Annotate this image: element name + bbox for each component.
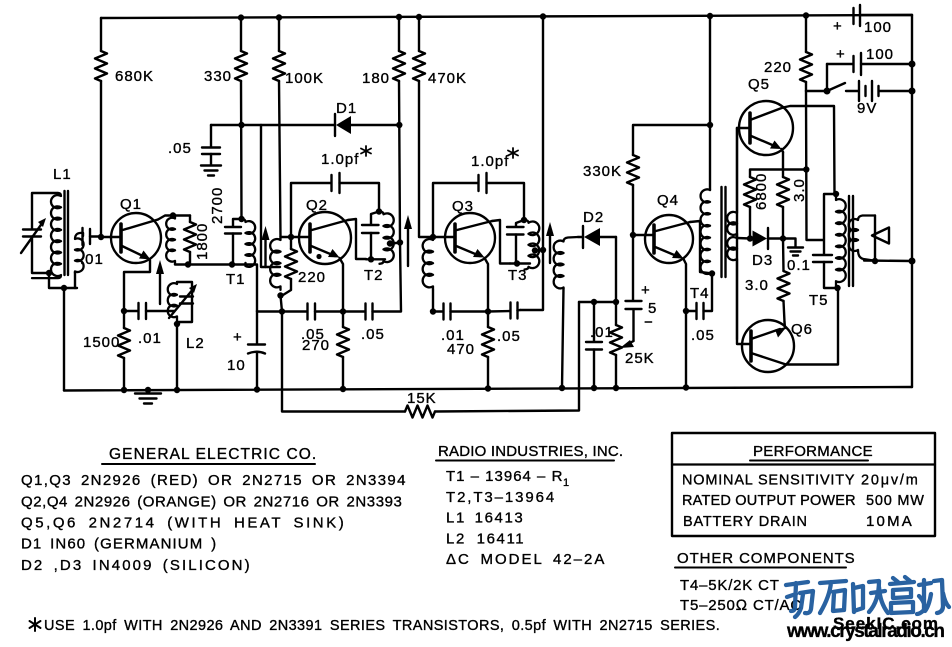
svg-text:D1: D1 (336, 100, 357, 117)
svg-text:GENERAL ELECTRIC CO.: GENERAL ELECTRIC CO. (109, 446, 317, 463)
svg-text:+: + (233, 329, 243, 346)
arrow Q1 slug (156, 260, 164, 304)
wire 100K down to Q2 base coil (279, 81, 281, 237)
wire T3 tap (533, 249, 543, 252)
node rail 25K (613, 385, 619, 391)
wire Q2 collector to T2 bottom (348, 219, 366, 259)
svg-text:470K: 470K (428, 70, 467, 87)
node T3 bottom (514, 260, 520, 266)
core T5 (849, 196, 853, 286)
node Q2 base (288, 234, 294, 240)
svg-text:680K: 680K (115, 68, 154, 85)
wire right supply rail (911, 15, 913, 261)
text block Other Components (675, 550, 856, 614)
transistor Q4 (633, 192, 693, 263)
wire 220 top lead (805, 16, 807, 53)
transistor Q3 (445, 198, 495, 263)
star footnote mark Q3 (508, 148, 518, 158)
node rail Q4 emitter (683, 384, 689, 390)
node right rail 100uF (909, 61, 916, 68)
node top rail junction x241 (238, 14, 244, 20)
wire T2 bottom bus (366, 258, 385, 260)
svg-text:L1: L1 (53, 166, 72, 183)
svg-text:3.0: 3.0 (791, 178, 808, 202)
wire Q6 emitter up to 3.0 (783, 322, 786, 328)
node volume top left (591, 299, 597, 305)
node top rail junction x279 (276, 14, 282, 20)
svg-text:D2: D2 (583, 209, 604, 226)
node 1800 bottom (185, 261, 191, 267)
node 2700 bottom (229, 261, 235, 267)
wire AGC feedback down (282, 312, 405, 412)
svg-text:.01: .01 (138, 330, 162, 347)
resistor 470 (447, 312, 494, 389)
node L1 bottom (46, 270, 52, 276)
label T2 (364, 267, 384, 284)
resistor 6800 (744, 173, 770, 239)
arrow T2 slug (404, 215, 412, 266)
wire supply to T4 primary (709, 16, 711, 190)
capacitor .01 Q1 base (80, 228, 104, 268)
node D1/180 junction (396, 122, 402, 128)
wire Q4 collector to T4 primary bottom (690, 221, 712, 274)
svg-text:6800: 6800 (753, 173, 770, 210)
svg-text:NOMINAL SENSITIVITY: NOMINAL SENSITIVITY (682, 473, 855, 489)
wire coupling coil bottom to row (432, 290, 434, 312)
svg-text:220: 220 (298, 269, 326, 286)
wire 180 top lead (398, 17, 400, 51)
battery 9V (846, 81, 912, 117)
wire 330K to Q4 base (632, 185, 634, 235)
node 330/AGC junction (238, 122, 244, 128)
wire 680K top lead (100, 18, 102, 51)
wire 330K branch (633, 125, 710, 155)
wire tuning cap bottom (32, 237, 49, 274)
wire 180 down through D1 node to T2 tap and .05 (399, 81, 401, 311)
wire Q3 collector to T3 bottom (492, 220, 510, 264)
text footnote (30, 618, 721, 634)
transistor Q1 (101, 196, 161, 263)
svg-text:T5–250Ω CT/AC: T5–250Ω CT/AC (680, 597, 802, 614)
svg-text:OTHER COMPONENTS: OTHER COMPONENTS (677, 550, 856, 567)
inductor L1 secondary (75, 233, 84, 273)
wire L1 bottom bus (49, 272, 77, 288)
node Q4 base (630, 232, 636, 238)
node volume top right (613, 299, 619, 305)
node coil bottom row (430, 308, 436, 314)
transistor Q2 (299, 197, 351, 264)
svg-text:Q4: Q4 (657, 192, 679, 209)
node top rail junction x806 (803, 12, 809, 18)
resistor 1800 (184, 216, 211, 265)
core T4 (722, 187, 726, 277)
wire T2 tap (388, 243, 400, 245)
wire 25K wiper (620, 310, 634, 349)
transistor Q6 (742, 320, 813, 372)
svg-text:D3: D3 (752, 252, 773, 269)
wire L2 to ground rail (176, 324, 178, 390)
inductor T1 coupling coil to Q2 (270, 237, 280, 290)
wire coil bottom to bus node (281, 296, 283, 312)
capacitor 100uF mid (827, 46, 912, 75)
node D3 cathode (780, 235, 786, 241)
node switch (824, 88, 831, 95)
svg-text:+: + (833, 18, 843, 35)
wire supply y169 bus (750, 170, 806, 178)
node top rail junction x399 (396, 14, 402, 20)
svg-text:3.0: 3.0 (745, 277, 769, 294)
svg-text:L2: L2 (186, 335, 205, 352)
capacitor .05 decoupling top-left (168, 125, 220, 165)
node T2 top (376, 208, 382, 214)
inductor T2 winding (379, 212, 394, 264)
watermark crystalradio (786, 577, 949, 642)
inductor detector coil (554, 237, 578, 289)
wire T4 secondary tap (737, 237, 750, 240)
svg-text:10: 10 (227, 357, 246, 374)
node T1 coupling coil bottom bus (279, 308, 285, 314)
svg-text:330K: 330K (583, 163, 622, 180)
svg-text:.05: .05 (168, 140, 192, 157)
svg-text:Q1,Q3 2N2926 (RED) OR 2N2715 O: Q1,Q3 2N2926 (RED) OR 2N2715 OR 2N3394 (21, 472, 407, 489)
svg-text:RATED OUTPUT POWER: RATED OUTPUT POWER (682, 493, 856, 509)
svg-text:.05: .05 (497, 328, 521, 345)
node top rail junction x419 (416, 14, 422, 20)
node rail L2 (174, 387, 180, 393)
resistor 220 output (764, 52, 812, 82)
ground D3 node (783, 239, 803, 256)
speaker (872, 216, 889, 262)
svg-text:470: 470 (447, 341, 475, 358)
node T1 secondary top (238, 216, 244, 222)
wire Q2 emitter down (340, 258, 344, 312)
svg-text:+: + (836, 46, 846, 63)
svg-text:T1 – 13964 – R: T1 – 13964 – R (446, 468, 563, 485)
wire 10uF node bus (257, 310, 282, 312)
resistor 220 Q2 bias (283, 237, 326, 295)
svg-text:T4: T4 (690, 285, 710, 302)
transistor Q5 (737, 76, 793, 155)
capacitor .01 Q3 in (433, 304, 488, 345)
node speaker return left (872, 258, 878, 264)
node T3 top (521, 217, 527, 223)
svg-text:25K: 25K (625, 350, 655, 367)
node T2 tap/180 line junction (397, 239, 403, 245)
resistor 15K (405, 390, 437, 418)
wire 470K down to Q3 base (419, 81, 433, 237)
capacitor T2 tuning (362, 212, 379, 260)
svg-text:100: 100 (866, 46, 894, 63)
node rail 470 (485, 385, 491, 391)
wire Q5 emitter lead (782, 149, 784, 152)
node rail 1500 (121, 387, 127, 393)
node top rail junction x710 (707, 13, 713, 19)
wire 220 to switch node (805, 82, 807, 91)
text block General Electric (21, 446, 407, 574)
inductor T5 primary (836, 194, 846, 288)
svg-text:20μv/m: 20μv/m (861, 473, 920, 489)
node L1 ground drop (61, 285, 67, 291)
capacitor 100uF top (833, 5, 912, 36)
wire switch node (806, 90, 827, 92)
svg-text:1800: 1800 (194, 223, 211, 260)
wire AGC branch down to T1 coupling coil (261, 125, 280, 267)
svg-text:T4–5K/2K CT: T4–5K/2K CT (680, 577, 780, 594)
resistor 330K (583, 155, 639, 185)
svg-text:Q5: Q5 (748, 76, 770, 93)
svg-text:USE 1.0pf WITH 2N2926 AND: USE 1.0pf WITH 2N2926 AND 2N3391 SERIES … (44, 618, 720, 634)
wire 0.1 supply branch (824, 194, 836, 255)
capacitor variable tuning (21, 218, 46, 253)
node supply y169 junction (803, 166, 809, 172)
wire D2 to volume node (615, 237, 617, 302)
wire L1 top (32, 193, 58, 229)
switch arm (827, 83, 845, 91)
node T4 tap (747, 235, 753, 241)
svg-text:T2: T2 (364, 267, 384, 284)
star footnote mark Q2 (361, 146, 371, 156)
L1 label (53, 166, 72, 183)
resistor 270 (302, 312, 349, 390)
capacitor .01 detector (586, 302, 614, 388)
wire supply to T3 tap line (520, 17, 543, 311)
wire T3 bottom bus (510, 262, 530, 264)
wire T4 primary bottom stub (710, 272, 712, 275)
inductor L2 (168, 282, 205, 352)
wire Q4 emitter down to rail (684, 259, 687, 388)
resistor 470K (413, 51, 467, 87)
wire Q1 collector to load (158, 216, 190, 220)
label T1 (226, 271, 246, 288)
node rail 10uF (254, 386, 260, 392)
svg-text:330: 330 (204, 68, 232, 85)
svg-text:Q5,Q6 2N2714 (WITH HEAT SINK): Q5,Q6 2N2714 (WITH HEAT SINK) (21, 515, 346, 532)
svg-text:1.0pf: 1.0pf (321, 151, 359, 168)
svg-text:Q2: Q2 (306, 197, 328, 214)
arrow T3 slug (546, 222, 554, 263)
inductor T2 coupling coil to Q3 (423, 237, 433, 290)
node Q3 base (430, 234, 436, 240)
capacitor .05 Q2 out (343, 304, 401, 344)
node T5 primary top (833, 191, 839, 197)
svg-text:100: 100 (864, 19, 892, 36)
node Q1 base (98, 234, 104, 240)
svg-text:L1 16413: L1 16413 (446, 510, 524, 527)
svg-text:Q3: Q3 (452, 198, 474, 215)
node T4 primary bottom (709, 270, 715, 276)
wire Q3 base lead (433, 236, 455, 238)
svg-text:T3: T3 (508, 267, 528, 284)
svg-text:100K: 100K (285, 70, 324, 87)
wire detector coil bottom to rail (562, 288, 564, 388)
svg-text:1: 1 (563, 477, 569, 489)
diode D3 (752, 228, 783, 269)
capacitor .05 reflex left (282, 304, 343, 344)
wire 330 top lead (240, 18, 242, 51)
resistor 3.0 Q5 emitter (777, 152, 808, 239)
node coupling coil bottom (277, 292, 283, 298)
label T5 (809, 292, 829, 309)
node Q2 emitter row (340, 308, 346, 314)
capacitor 0.1 (787, 255, 838, 288)
wire 330 down to T1 top (240, 81, 243, 219)
svg-text:0.1: 0.1 (787, 257, 811, 274)
wire 15K to volume node (435, 302, 579, 412)
resistor 180 (362, 51, 405, 87)
capacitor .05 Q3 out (488, 303, 521, 346)
inductor T5 secondary (849, 216, 875, 261)
resistor 680K (95, 51, 154, 85)
svg-text:.01: .01 (80, 251, 104, 268)
wire L1 to ground rail (63, 288, 65, 391)
wire speaker return (864, 259, 912, 262)
capacitor .01 Q1 emitter (124, 303, 174, 347)
svg-text:T2,T3–13964: T2,T3–13964 (446, 489, 556, 506)
node L2 bottom (174, 321, 180, 327)
node 470 row (485, 308, 491, 314)
svg-text:.05: .05 (691, 327, 715, 344)
svg-text:Q1: Q1 (120, 196, 142, 213)
svg-text:Q6: Q6 (791, 321, 813, 338)
svg-text:T5: T5 (809, 292, 829, 309)
svg-text:15K: 15K (407, 390, 437, 407)
node collector load top (170, 212, 176, 218)
capacitor T3 tuning (507, 220, 524, 264)
ground .05 top-left (201, 166, 221, 176)
inductor T4 primary (701, 189, 710, 274)
inductor T1 primary winding (166, 216, 175, 265)
node speaker return right (909, 258, 916, 265)
resistor 1500 (83, 311, 130, 390)
svg-text:Q2,Q4 2N2926 (ORANGE) OR 2N271: Q2,Q4 2N2926 (ORANGE) OR 2N2716 OR 2N339… (21, 494, 402, 511)
wire Q5 collector to T5 top (783, 106, 835, 194)
potentiometer 25K (610, 302, 655, 388)
inductor T1 secondary (242, 219, 256, 267)
svg-text:D2 ,D3 IN4009 (SILICON): D2 ,D3 IN4009 (SILICON) (21, 557, 252, 574)
svg-text:9V: 9V (857, 100, 877, 117)
svg-text:D1 IN60 (GERMANIUM ): D1 IN60 (GERMANIUM ) (21, 536, 217, 553)
node rail .01 det (591, 385, 597, 391)
capacitor .05 T4 (686, 274, 715, 345)
wire 470K top lead (418, 17, 420, 51)
wire right rail to ground rail (911, 261, 913, 387)
node Q4 emitter cap branch (683, 308, 689, 314)
capacitor 5uF AGC (626, 235, 658, 331)
node T3 tap junction on supply line (540, 247, 546, 253)
node Q1 emitter .01/1500 (121, 308, 127, 314)
wire AGC line to D1 (211, 124, 334, 126)
capacitor 2700 (209, 187, 242, 265)
node T5 primary bottom (834, 285, 840, 291)
node 330K branch junction (707, 122, 713, 128)
wire volume node bus (579, 301, 616, 303)
inductor T4 secondary (727, 128, 737, 339)
wire switch node down supply feed (806, 91, 823, 240)
svg-text:www.crystalradio.cn: www.crystalradio.cn (786, 621, 945, 642)
wire main ground rail (64, 387, 912, 391)
node rail ground symbol (145, 387, 151, 393)
resistor 3.0 Q6 emitter (745, 239, 790, 323)
wire top supply rail (101, 15, 912, 18)
wire T1 bottom bus (175, 265, 257, 312)
svg-text:.05: .05 (361, 326, 385, 343)
capacitor 1.0pf Q3 (433, 153, 524, 237)
label T3 (508, 267, 528, 284)
core L1 (65, 191, 69, 275)
ground main (135, 390, 161, 404)
node T2 tap coil side (387, 240, 393, 246)
node T3 tap coil side (532, 247, 538, 253)
svg-text:270: 270 (302, 337, 330, 354)
capacitor 1.0pf Q2 (291, 151, 379, 237)
wire Q2 base (281, 236, 311, 238)
svg-text:T1: T1 (226, 271, 246, 288)
svg-text:PERFORMANCE: PERFORMANCE (753, 443, 873, 460)
watermark seekic (833, 614, 938, 633)
wire Q1 emitter down (124, 260, 150, 311)
svg-text:L2 16411: L2 16411 (446, 531, 525, 548)
text block Radio Industries (436, 443, 623, 568)
node top rail junction x543 (540, 13, 546, 19)
svg-text:BATTERY DRAIN: BATTERY DRAIN (683, 514, 808, 530)
resistor 330 (204, 51, 247, 85)
svg-text:1500: 1500 (83, 334, 120, 351)
arrow T1 tuning slug (262, 226, 270, 267)
resistor 100K (273, 51, 324, 87)
node T2 bottom (368, 256, 374, 262)
inductor T3 winding (524, 220, 539, 270)
diode D1 (335, 100, 399, 136)
wire 100K top lead (278, 18, 280, 52)
svg-text:10MA: 10MA (866, 513, 914, 530)
wire 100uF mid to switch node (826, 64, 828, 91)
svg-text:180: 180 (362, 70, 390, 87)
wire Q5 Q6 base line (737, 128, 751, 344)
svg-text:−: − (644, 314, 654, 331)
capacitor 10uF (227, 311, 265, 390)
wire Q6 collector to T5 bottom (786, 288, 838, 365)
box Performance (672, 433, 935, 536)
inductor L1 primary (32, 193, 61, 278)
node rail detector coil (559, 385, 565, 391)
svg-text:220: 220 (764, 59, 792, 76)
svg-text:2700: 2700 (209, 187, 226, 224)
svg-text:RADIO INDUSTRIES, INC.: RADIO INDUSTRIES, INC. (438, 443, 623, 460)
svg-text:+: + (641, 282, 651, 299)
svg-text:ΔC MODEL 42–2A: ΔC MODEL 42–2A (446, 551, 606, 568)
wire 680K to Q1 base (100, 81, 102, 237)
diode D2 (578, 209, 616, 248)
node right rail battery (909, 88, 916, 95)
svg-text:1.0pf: 1.0pf (471, 153, 509, 170)
svg-text:500 MW: 500 MW (866, 493, 925, 509)
node rail 270 (340, 386, 346, 392)
wire Q3 emitter down (485, 258, 489, 312)
